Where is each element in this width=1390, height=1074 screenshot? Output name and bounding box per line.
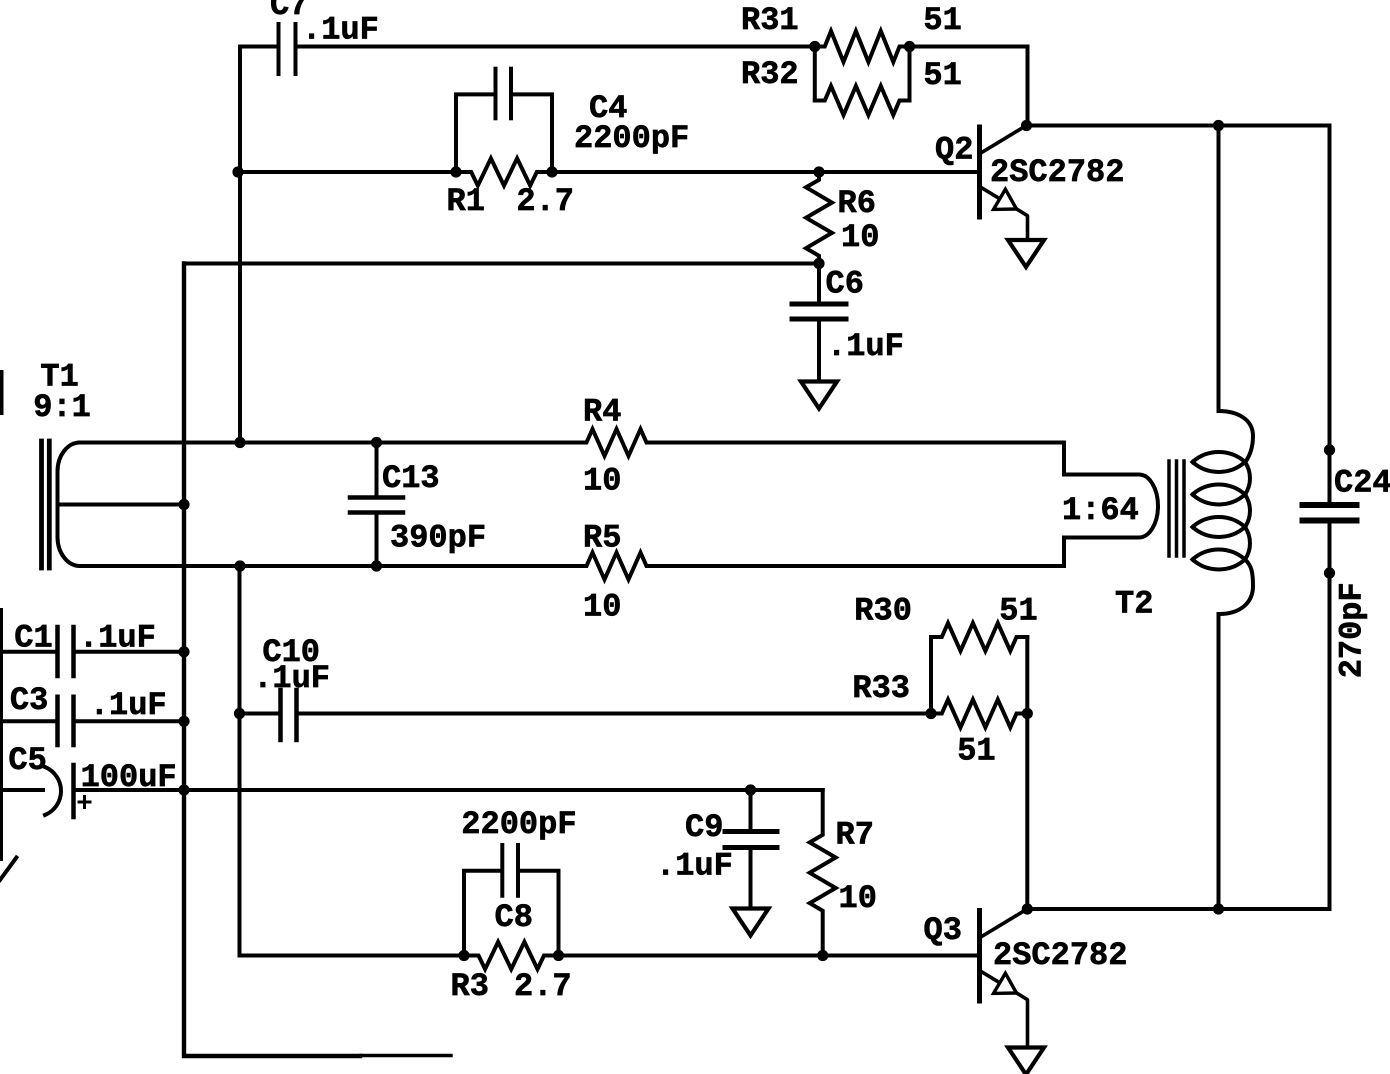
svg-text:.1uF: .1uF	[253, 660, 330, 697]
svg-text:C1: C1	[14, 620, 52, 657]
svg-text:C24: C24	[1334, 465, 1390, 502]
svg-text:R32: R32	[741, 56, 799, 93]
svg-text:R3: R3	[451, 968, 489, 1005]
svg-text:C6: C6	[826, 266, 864, 303]
svg-text:R5: R5	[583, 520, 621, 557]
svg-text:2.7: 2.7	[514, 968, 572, 1005]
svg-text:51: 51	[923, 57, 961, 94]
svg-text:C13: C13	[382, 460, 440, 497]
svg-text:2200pF: 2200pF	[461, 806, 576, 843]
svg-text:R6: R6	[838, 185, 876, 222]
svg-text:2.7: 2.7	[516, 183, 574, 220]
svg-text:R33: R33	[852, 670, 910, 707]
svg-text:.1uF: .1uF	[79, 620, 156, 657]
svg-text:R7: R7	[836, 817, 874, 854]
svg-text:.1uF: .1uF	[827, 328, 904, 365]
svg-text:2SC2782: 2SC2782	[990, 154, 1124, 191]
svg-text:10: 10	[583, 589, 621, 626]
svg-text:T2: T2	[1115, 586, 1153, 623]
svg-text:C3: C3	[10, 682, 48, 719]
svg-text:10: 10	[839, 880, 877, 917]
svg-text:270pF: 270pF	[1334, 582, 1371, 678]
svg-text:C5: C5	[8, 742, 46, 779]
svg-text:51: 51	[957, 733, 995, 770]
svg-text:R1: R1	[447, 183, 485, 220]
svg-text:51: 51	[923, 2, 961, 39]
svg-text:51: 51	[999, 593, 1037, 630]
svg-text:Q3: Q3	[924, 912, 962, 949]
svg-text:2200pF: 2200pF	[574, 120, 689, 157]
svg-text:1:64: 1:64	[1062, 492, 1139, 529]
svg-text:.1uF: .1uF	[90, 687, 167, 724]
svg-text:390pF: 390pF	[390, 520, 486, 557]
svg-text:10: 10	[583, 463, 621, 500]
svg-text:10: 10	[841, 219, 879, 256]
svg-text:100uF: 100uF	[81, 759, 177, 796]
svg-text:2SC2782: 2SC2782	[993, 937, 1127, 974]
svg-text:.1uF: .1uF	[656, 848, 733, 885]
svg-text:Q2: Q2	[935, 132, 973, 169]
svg-text:R4: R4	[583, 394, 621, 431]
svg-text:9:1: 9:1	[33, 389, 91, 426]
svg-text:C9: C9	[685, 809, 723, 846]
svg-text:R31: R31	[741, 2, 799, 39]
svg-text:.1uF: .1uF	[302, 12, 379, 49]
svg-text:R30: R30	[854, 593, 912, 630]
svg-text:C8: C8	[495, 899, 533, 936]
